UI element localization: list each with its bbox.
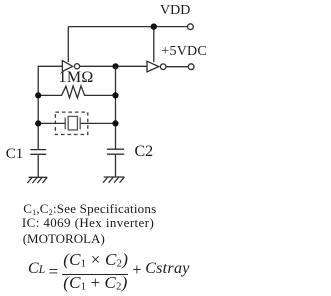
wire U1A power pin [67,27,69,62]
wire U1B output [166,66,188,68]
formula Cstray term [145,261,189,277]
note MOTOROLA [23,232,105,245]
formula plus sign [132,262,141,279]
terminal +5VDC [188,64,194,70]
wire C1 to ground [37,154,39,177]
label C1 [6,147,24,162]
note C1 C2 see specifications [23,202,156,217]
label 1MΩ value of R1 [59,70,94,86]
formula denominator (C1 + C2) [63,274,127,293]
wire U1A output [80,65,147,67]
node crystal right junction [112,120,118,126]
label C2 [135,144,154,160]
node R1 right junction [112,92,118,98]
crystal Y1 leads [38,122,115,124]
inverter U1A [62,61,79,72]
wire VDD rail [68,26,187,28]
inverter U1B [147,61,166,72]
ground GND1 [27,177,47,183]
terminal VDD [188,24,194,30]
formula numerator (C1 x C2) [63,251,128,270]
label +5VDC [161,45,207,59]
ground GND2 [103,177,124,183]
wire C2 to ground [115,154,117,177]
capacitor C1 [30,150,46,155]
node U1A output junction [112,63,118,69]
node R1 left junction [35,92,41,98]
formula equals sign [49,263,59,280]
crystal Y1 dashed enclosure [55,112,87,134]
wire left rail [37,66,39,150]
resistor R1 1MΩ [38,86,115,98]
note IC 4069 hex inverter [22,216,154,229]
formula CL term [28,261,45,277]
formula fraction bar [62,274,128,275]
crystal Y1 electrodes and body [65,116,80,129]
wire U1A input [38,65,62,67]
capacitor C2 [107,149,124,154]
node crystal left junction [35,120,41,126]
label VDD [160,4,190,18]
node VDD junction [151,23,157,29]
wire right rail [115,66,117,149]
wire U1B power pin [153,27,155,63]
